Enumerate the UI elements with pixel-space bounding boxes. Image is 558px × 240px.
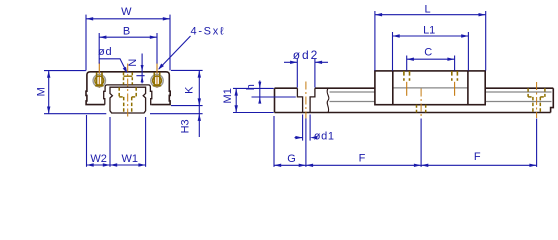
dimension L bbox=[375, 11, 486, 71]
svg-text:L: L bbox=[424, 3, 430, 15]
label 4-Sxl with leader bbox=[158, 36, 190, 70]
right view: block thread hole centerlines bbox=[407, 82, 455, 96]
left view: carriage block outer outline bbox=[86, 72, 170, 105]
dimension W bbox=[86, 15, 170, 71]
right view: block thread holes hidden bbox=[404, 71, 458, 81]
dimension M bbox=[44, 71, 106, 114]
left view: rail cross-section bbox=[110, 87, 146, 113]
dimension od2 bbox=[284, 59, 328, 88]
svg-text:N: N bbox=[127, 59, 139, 67]
left view: block inner recess over rail bbox=[104, 85, 152, 105]
left view: rail counterbore hidden lines bbox=[119, 87, 136, 113]
svg-text:L1: L1 bbox=[423, 24, 435, 36]
svg-text:F: F bbox=[359, 152, 366, 164]
svg-text:W1: W1 bbox=[121, 153, 138, 165]
dimension N bbox=[136, 54, 144, 84]
dimension H3 bbox=[150, 106, 203, 137]
svg-text:W2: W2 bbox=[90, 153, 107, 165]
dimension L1 bbox=[393, 32, 469, 71]
svg-text:K: K bbox=[183, 86, 195, 94]
left view: rail centerline bbox=[127, 64, 129, 120]
right view: block side outline bbox=[375, 71, 485, 105]
right view: third hole centerline bbox=[536, 82, 538, 118]
dimension C bbox=[407, 56, 455, 71]
dimension M1 bbox=[233, 88, 274, 112]
svg-text:ød2: ød2 bbox=[293, 48, 319, 62]
svg-text:ød: ød bbox=[98, 46, 112, 58]
svg-text:M1: M1 bbox=[222, 88, 234, 103]
dimension K bbox=[171, 70, 203, 105]
right view: hole 1 centerline bbox=[305, 82, 307, 119]
dimensions G F F bbox=[274, 116, 537, 167]
dimension h bbox=[252, 81, 296, 104]
left view: grease hole od hidden lines bbox=[124, 72, 133, 84]
svg-text:G: G bbox=[287, 153, 296, 165]
left view: screw hole left (S) bbox=[93, 63, 105, 89]
right view: first counterbore hole (sectioned) bbox=[297, 88, 315, 112]
right view: middle hole hidden under block bbox=[417, 89, 426, 118]
right view: break line bbox=[327, 88, 329, 112]
dimension B bbox=[99, 33, 157, 64]
svg-text:B: B bbox=[123, 25, 130, 37]
dimension od leader bbox=[99, 59, 127, 73]
right view: rail side outline bbox=[275, 88, 554, 112]
svg-text:H3: H3 bbox=[180, 119, 192, 133]
dimension od1 bbox=[295, 115, 318, 141]
svg-text:M: M bbox=[36, 87, 48, 96]
right view: third hole hidden bbox=[528, 88, 545, 112]
svg-text:ød1: ød1 bbox=[314, 130, 335, 142]
dimensions W2 W1 bbox=[87, 115, 146, 167]
svg-text:W: W bbox=[121, 6, 132, 18]
left view: screw hole right (S) bbox=[151, 63, 163, 89]
svg-text:C: C bbox=[424, 47, 432, 59]
svg-text:F: F bbox=[474, 151, 481, 163]
svg-text:h: h bbox=[245, 84, 257, 90]
right view: rail groove lines bbox=[330, 88, 552, 102]
svg-text:4-Sxℓ: 4-Sxℓ bbox=[191, 26, 226, 38]
